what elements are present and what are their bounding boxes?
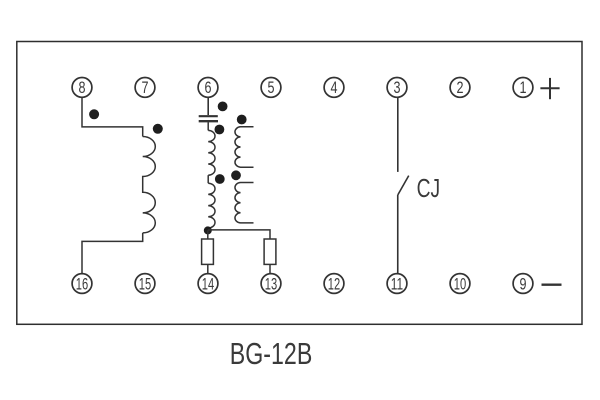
wire R1 to terminal 14	[207, 264, 209, 273]
resistor R1	[202, 239, 214, 264]
polarity dot left of W4 top	[231, 170, 241, 180]
svg-text:16: 16	[76, 275, 88, 293]
wire W2 to junction	[207, 228, 209, 231]
terminal 16	[72, 274, 92, 294]
terminal 5	[261, 78, 281, 98]
terminal 15	[135, 274, 155, 294]
winding W2 lower	[208, 183, 215, 228]
svg-text:BG-12B: BG-12B	[230, 337, 312, 371]
polarity dot at top of W2	[215, 125, 225, 135]
wire junction to resistors	[208, 230, 270, 239]
primary winding W1 (left coil)	[143, 137, 156, 233]
svg-text:14: 14	[202, 275, 214, 293]
terminal 10	[450, 274, 470, 294]
secondary winding W3 upper-right	[235, 127, 254, 167]
svg-text:6: 6	[205, 79, 212, 97]
wire from terminal 8 down and right	[82, 97, 143, 136]
junction node	[204, 226, 212, 234]
terminal 14	[198, 274, 218, 294]
switch CJ blade	[398, 176, 409, 195]
svg-text:9: 9	[520, 275, 527, 293]
polarity dot at bottom of W2 upper section	[215, 174, 225, 184]
svg-text:7: 7	[142, 79, 149, 97]
wire R2 to terminal 13	[269, 264, 271, 273]
plus polarity mark	[540, 78, 559, 99]
terminal 1	[513, 78, 533, 98]
svg-text:CJ: CJ	[417, 173, 441, 203]
wire from terminal 6 to capacitor	[207, 97, 209, 115]
svg-text:11: 11	[391, 275, 403, 293]
svg-text:10: 10	[454, 275, 466, 293]
svg-text:13: 13	[265, 275, 277, 293]
svg-text:1: 1	[520, 79, 527, 97]
winding W2 upper (middle-left coil)	[208, 130, 215, 175]
polarity dot right of capacitor top	[218, 102, 228, 112]
svg-text:8: 8	[79, 79, 86, 97]
svg-text:2: 2	[457, 79, 464, 97]
svg-text:4: 4	[331, 79, 338, 97]
terminal 3	[387, 78, 407, 98]
terminal 12	[324, 274, 344, 294]
wire capacitor to winding W2	[207, 122, 209, 130]
svg-text:15: 15	[139, 275, 151, 293]
svg-text:3: 3	[394, 79, 401, 97]
wire between W2 sections	[207, 175, 209, 183]
terminal 4	[324, 78, 344, 98]
terminal 6	[198, 78, 218, 98]
svg-text:5: 5	[268, 79, 275, 97]
secondary winding W4 lower-right	[235, 183, 254, 223]
terminal 7	[135, 78, 155, 98]
polarity dot above W3	[237, 115, 247, 125]
wire from W1 bottom to terminal 16	[82, 233, 143, 274]
terminal 13	[261, 274, 281, 294]
minus polarity mark	[542, 284, 562, 286]
capacitor C	[199, 116, 218, 121]
wire from terminal 3 to switch	[397, 97, 399, 172]
resistor R2	[264, 239, 276, 264]
polarity dot near terminal 8 wire	[89, 109, 99, 119]
terminal 2	[450, 78, 470, 98]
terminal 9	[513, 274, 533, 294]
polarity dot at top of W1	[153, 124, 163, 134]
terminal 11	[387, 274, 407, 294]
wire switch to terminal 11	[397, 195, 399, 274]
terminal 8	[72, 78, 92, 98]
svg-text:12: 12	[328, 275, 340, 293]
